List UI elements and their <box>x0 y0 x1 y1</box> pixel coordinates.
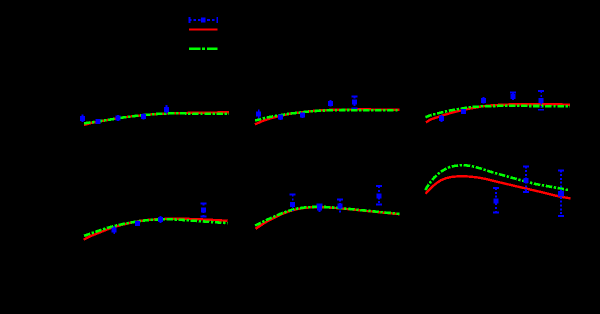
panel 1 (top-left) red model curve <box>84 112 229 125</box>
panel 6 (bottom-right) red model curve <box>426 176 571 198</box>
legend red solid line entry <box>189 28 218 30</box>
panel 3 data points (blue squares with error bars) <box>439 91 544 122</box>
panel 2 (top-middle) red model curve <box>255 109 400 124</box>
panel 4 green dash-dot model curve <box>84 219 228 236</box>
panel 6 data points (blue squares with dashed error bars) <box>493 166 564 216</box>
legend green dash-dot line entry <box>189 48 218 51</box>
panel 5 green dash-dot model curve <box>255 207 400 226</box>
panel 2 green dash-dot model curve <box>255 110 400 121</box>
panel 5 data points (blue squares with error bars) <box>290 186 382 213</box>
panel 2 data points (blue squares with error bars) <box>256 96 357 120</box>
panel 6 green dash-dot model curve <box>425 165 569 190</box>
legend data-point entry (blue dashed error bar with square) <box>189 17 218 23</box>
panel 1 data points (blue squares with error bars) <box>80 105 169 124</box>
panel 1 green dash-dot model curve <box>84 113 229 123</box>
panel 3 green dash-dot model curve <box>426 106 571 117</box>
panel 4 (bottom-left) red model curve <box>84 219 228 240</box>
panel 4 data points (blue squares with error bars) <box>112 204 207 234</box>
panel 5 (bottom-middle) red model curve <box>256 207 400 229</box>
panel 3 (top-right) red model curve <box>426 104 570 122</box>
